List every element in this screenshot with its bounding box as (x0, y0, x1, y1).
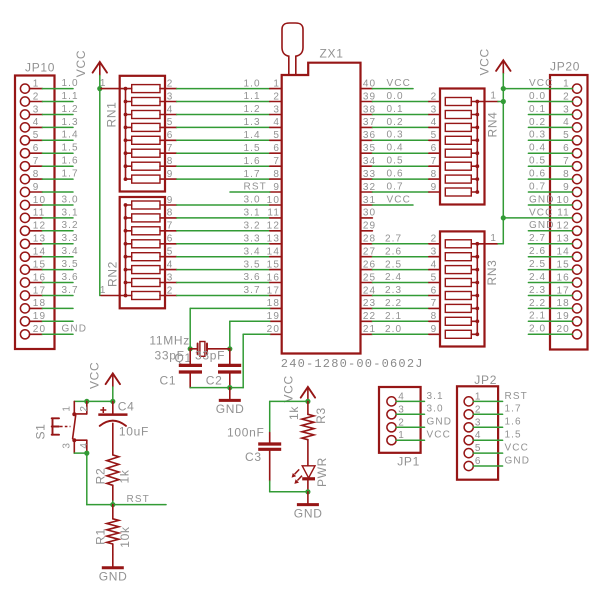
svg-text:VCC: VCC (505, 443, 529, 454)
svg-text:5: 5 (33, 130, 40, 141)
resistor network RN4 body (440, 89, 485, 205)
junction RN4 bus 3 (475, 126, 479, 130)
svg-text:GND: GND (505, 455, 531, 466)
svg-text:2.1: 2.1 (385, 311, 402, 322)
svg-text:7: 7 (563, 156, 570, 167)
ZX1 pin 37 (361, 117, 377, 128)
JP10 pin 18 (20, 298, 46, 313)
ZX1 pin 9 (270, 182, 282, 193)
junction RN1 bus 2 (124, 100, 128, 104)
svg-text:1.5: 1.5 (62, 143, 79, 154)
svg-text:5: 5 (431, 272, 438, 283)
capacitor C4 (98, 401, 127, 455)
svg-text:GND: GND (294, 506, 323, 520)
svg-text:R3: R3 (314, 407, 328, 424)
svg-text:3.7: 3.7 (244, 285, 261, 296)
wire JP1 pin 2 (396, 426, 424, 428)
JP20 pin 19 (556, 311, 581, 326)
wire JP20 pin 10 (528, 204, 572, 206)
JP20 pin 18 (556, 298, 581, 313)
svg-text:9: 9 (167, 195, 174, 206)
svg-text:4: 4 (33, 117, 40, 128)
ZX1 pin 4 (270, 117, 282, 128)
RN4 resistor 2 (445, 111, 477, 119)
svg-text:5: 5 (563, 130, 570, 141)
wire JP20 pin 5 (528, 139, 572, 141)
JP20 pin 11 (557, 208, 581, 223)
junction RN3 bus 5 (475, 294, 479, 298)
svg-text:3.5: 3.5 (244, 259, 261, 270)
RN2 resistor pin 5 (126, 247, 177, 261)
junction RN4 bus 7 (475, 177, 479, 181)
svg-text:19: 19 (556, 311, 569, 322)
svg-text:17: 17 (33, 285, 46, 296)
svg-text:3.1: 3.1 (62, 207, 79, 218)
svg-text:3: 3 (62, 443, 73, 449)
junction RST (110, 502, 115, 507)
wire JP10 pin 11 (42, 217, 73, 219)
resistor network RN3 body (440, 231, 485, 346)
svg-text:GND: GND (99, 570, 128, 584)
svg-text:1: 1 (273, 78, 280, 89)
svg-text:37: 37 (363, 117, 376, 128)
wire VCC to S1 (74, 400, 113, 402)
svg-text:16: 16 (267, 272, 280, 283)
svg-text:1.4: 1.4 (244, 130, 261, 141)
svg-text:GND: GND (216, 402, 245, 416)
wire JP20 pin 9 (528, 191, 572, 193)
RN4 pin 1 (477, 91, 503, 102)
svg-text:3.0: 3.0 (244, 195, 261, 206)
svg-text:RN1: RN1 (105, 101, 119, 127)
svg-text:2: 2 (79, 406, 90, 412)
svg-text:0.4: 0.4 (387, 143, 404, 154)
svg-text:VCC: VCC (529, 207, 553, 218)
RN2 resistor pin 8 (126, 208, 177, 222)
RN1 common bus (125, 89, 127, 180)
svg-text:40: 40 (363, 78, 376, 89)
svg-text:3.6: 3.6 (244, 272, 261, 283)
JP20 pin 9 (563, 182, 581, 197)
JP10 pin 8 (20, 169, 42, 184)
junction RN2 bus 6 (124, 242, 128, 246)
wire JP20 pin 8 (528, 178, 572, 180)
ZX1 pin 15 (267, 259, 282, 270)
junction RN2 bus 4 (124, 268, 128, 272)
svg-text:3.0: 3.0 (62, 194, 79, 205)
connector JP2 body (457, 386, 498, 479)
svg-text:18: 18 (556, 298, 569, 309)
RN3 resistor 4 (445, 279, 477, 287)
svg-text:1: 1 (62, 406, 73, 412)
junction RN1 bus 6 (124, 151, 128, 155)
svg-text:100nF: 100nF (227, 426, 265, 440)
junction RN2 bus 2 (124, 294, 128, 298)
ZX1 pin 2 (270, 91, 282, 102)
svg-text:GND: GND (427, 417, 453, 428)
JP1 pin 2 (387, 417, 405, 432)
ZX1 pin 12 (267, 221, 282, 232)
svg-text:20: 20 (556, 324, 569, 335)
JP2 pin 1 (464, 391, 481, 406)
JP20 pin 20 (556, 324, 581, 339)
svg-text:9: 9 (431, 182, 438, 193)
wire JP10 pin 3 (42, 114, 73, 116)
wire JP20 pin 12 (528, 230, 572, 232)
JP20 pin 7 (563, 156, 581, 171)
wire JP10 pin 16 (42, 282, 73, 284)
ZX1 pin 3 (270, 104, 282, 115)
JP10 pin 11 (20, 208, 45, 223)
junction S1/VCC wire (84, 399, 89, 404)
svg-text:4: 4 (431, 259, 438, 270)
svg-text:4: 4 (167, 104, 174, 115)
connector JP20 body (550, 75, 588, 350)
wire net 3.5 RN2 to ZX1 (177, 269, 270, 271)
svg-text:1.1: 1.1 (62, 91, 79, 102)
svg-text:1: 1 (100, 78, 107, 89)
JP10 pin 4 (20, 117, 42, 132)
LED PWR (292, 466, 315, 492)
ZX1 pin 5 (270, 130, 282, 141)
JP1 pin 4 (387, 391, 405, 406)
RN1 resistor 1 (126, 78, 177, 92)
wire JP10 pin 15 (42, 269, 73, 271)
svg-text:2.0: 2.0 (385, 324, 402, 335)
ZX1 pin 33 (361, 169, 377, 180)
svg-text:0.2: 0.2 (529, 117, 546, 128)
wire JP10 pin 5 (42, 139, 73, 141)
svg-text:32: 32 (363, 182, 376, 193)
svg-text:3: 3 (563, 104, 570, 115)
svg-text:240-1280-00-0602J: 240-1280-00-0602J (281, 357, 424, 371)
junction RN4 bus 5 (475, 151, 479, 155)
wire JP2 pin 4 (473, 439, 502, 441)
svg-text:1.1: 1.1 (244, 91, 261, 102)
wire net 3.0 RN2 to ZX1 (177, 204, 270, 206)
JP10 pin 9 (20, 182, 42, 197)
JP10 pin 7 (20, 156, 42, 171)
svg-text:1: 1 (563, 78, 570, 89)
junction RN1 bus 7 (124, 164, 128, 168)
svg-text:RN3: RN3 (485, 259, 499, 285)
svg-text:0.2: 0.2 (387, 117, 404, 128)
JP20 pin 13 (556, 234, 581, 249)
junction RN1 bus 1 (124, 87, 128, 91)
svg-text:2: 2 (167, 285, 174, 296)
JP10 pin 13 (20, 234, 46, 249)
svg-text:3: 3 (431, 247, 438, 258)
svg-text:6: 6 (167, 234, 174, 245)
wire net 2.5 ZX1 to RN3 (372, 269, 440, 271)
svg-text:11: 11 (33, 208, 46, 219)
svg-text:8: 8 (167, 156, 174, 167)
ZX1 pin 14 (267, 247, 282, 258)
wire net 2.4 ZX1 to RN3 (372, 282, 440, 284)
svg-text:3.6: 3.6 (62, 272, 79, 283)
wire JP20 pin 1 (503, 88, 572, 90)
wire C3 to LED cathode (270, 481, 308, 492)
svg-text:1.2: 1.2 (244, 104, 261, 115)
svg-text:VCC: VCC (88, 362, 102, 389)
svg-text:16: 16 (556, 272, 569, 283)
svg-text:19: 19 (267, 311, 280, 322)
ZX1 pin 30 (361, 208, 377, 219)
svg-text:17: 17 (556, 285, 569, 296)
svg-text:30: 30 (363, 208, 376, 219)
svg-text:C4: C4 (118, 400, 135, 414)
svg-text:GND: GND (62, 324, 88, 335)
junction RN3 bus 7 (475, 319, 479, 323)
svg-text:14: 14 (556, 247, 569, 258)
svg-text:13: 13 (267, 234, 280, 245)
svg-text:11: 11 (557, 208, 570, 219)
svg-text:1.0: 1.0 (62, 78, 79, 89)
wire JP20 pin 17 (528, 295, 572, 297)
svg-text:1.4: 1.4 (62, 130, 79, 141)
RN2 common bus (125, 205, 127, 296)
capacitor C2 (218, 349, 241, 388)
svg-text:9: 9 (563, 182, 570, 193)
JP10 pin 2 (20, 91, 42, 106)
svg-text:3: 3 (273, 104, 280, 115)
svg-text:1.3: 1.3 (62, 117, 79, 128)
JP20 pin 10 (556, 195, 581, 210)
JP20 pin 12 (556, 221, 581, 236)
ZX1 pin 22 (361, 311, 377, 322)
JP10 pin 20 (20, 324, 46, 339)
svg-text:29: 29 (363, 221, 376, 232)
wire JP2 pin 6 (473, 465, 502, 467)
wire net 3.7 RN2 to ZX1 (177, 295, 270, 297)
svg-text:8: 8 (431, 311, 438, 322)
svg-text:12: 12 (267, 221, 280, 232)
junction RN1 bus 5 (124, 138, 128, 142)
ZX1 pin 39 (361, 91, 377, 102)
svg-text:1.5: 1.5 (505, 430, 522, 441)
svg-text:14: 14 (33, 247, 46, 258)
junction LED/GND (305, 489, 310, 494)
wire net 3.3 RN2 to ZX1 (177, 243, 270, 245)
wire ZX1 pin18 to crystal (190, 308, 270, 348)
junction VCC/R3/C3 (305, 399, 310, 404)
svg-text:2.2: 2.2 (385, 298, 402, 309)
svg-text:7: 7 (167, 221, 174, 232)
resistor R3 (302, 401, 314, 465)
ZX1 pin 35 (361, 143, 377, 154)
ZX1 pin 24 (361, 285, 377, 296)
svg-text:RST: RST (127, 494, 150, 505)
JP10 pin 15 (20, 259, 46, 274)
wire JP10 pin 4 (42, 126, 73, 128)
svg-text:13: 13 (33, 234, 46, 245)
JP20 pin 6 (563, 143, 581, 158)
svg-text:2.2: 2.2 (529, 298, 546, 309)
wire net 2.6 ZX1 to RN3 (372, 256, 440, 258)
junction RN2 bus 8 (124, 216, 128, 220)
wire VCC to C3 (270, 401, 308, 432)
svg-text:RN2: RN2 (106, 261, 120, 287)
svg-text:7: 7 (167, 143, 174, 154)
wire JP20 pin 7 (528, 165, 572, 167)
junction RN3 bus 1 (475, 242, 479, 246)
wire net 1.1 RN1 to ZX1 (177, 101, 270, 103)
svg-text:3.2: 3.2 (62, 220, 79, 231)
svg-text:10: 10 (267, 195, 280, 206)
RN3 resistor 8 (445, 330, 477, 338)
svg-text:2.3: 2.3 (385, 285, 402, 296)
JP20 pin 16 (556, 272, 581, 287)
junction crystal left (188, 346, 193, 351)
svg-text:10: 10 (556, 195, 569, 206)
svg-text:VCC: VCC (477, 48, 491, 75)
svg-text:JP10: JP10 (25, 61, 55, 75)
svg-text:16: 16 (33, 272, 46, 283)
RN3 resistor 2 (445, 253, 477, 261)
wire JP1 pin 1 (396, 439, 424, 441)
ZX1 pin 32 (361, 182, 377, 193)
ZX1 pin 25 (361, 272, 377, 283)
svg-text:GND: GND (529, 194, 555, 205)
resistor R2 (107, 455, 119, 505)
capacitor C1 (179, 349, 202, 388)
JP1 pin 3 (387, 404, 405, 419)
svg-text:4: 4 (79, 443, 90, 449)
svg-text:R1: R1 (94, 528, 108, 545)
svg-text:17: 17 (267, 285, 280, 296)
svg-text:5: 5 (273, 130, 280, 141)
svg-text:8: 8 (563, 169, 570, 180)
svg-text:3.2: 3.2 (244, 221, 261, 232)
wire net 2.7 ZX1 to RN3 (372, 243, 440, 245)
svg-text:0.1: 0.1 (529, 104, 546, 115)
RN1 resistor 4 (126, 117, 177, 131)
svg-text:4: 4 (431, 117, 438, 128)
wire net VCC pin31 (372, 204, 413, 206)
svg-text:1.7: 1.7 (62, 169, 79, 180)
svg-text:1.2: 1.2 (62, 104, 79, 115)
wire net 0.5 ZX1 to RN4 (372, 165, 440, 167)
wire net 1.2 RN1 to ZX1 (177, 114, 270, 116)
svg-text:18: 18 (33, 298, 46, 309)
svg-text:0.7: 0.7 (387, 181, 404, 192)
svg-text:13: 13 (556, 234, 569, 245)
junction RN3 bus 8 (475, 332, 479, 336)
RN4 resistor 7 (445, 175, 477, 183)
JP1 pin 1 (387, 430, 405, 445)
svg-text:3.1: 3.1 (244, 208, 261, 219)
wire net RST (87, 504, 166, 506)
junction RN3 bus 6 (475, 307, 479, 311)
ZX1 pin 40 (361, 78, 377, 89)
junction RN4 bus 6 (475, 164, 479, 168)
connector JP1 body (379, 387, 421, 453)
ZX1 pin 16 (267, 272, 282, 283)
JP10 pin 14 (20, 247, 46, 262)
svg-text:8: 8 (167, 208, 174, 219)
wire ZX1 pin19 to crystal (230, 321, 270, 349)
svg-text:RST: RST (505, 391, 528, 402)
wire JP20 pin 4 (528, 126, 572, 128)
svg-text:6: 6 (167, 130, 174, 141)
RN2 resistor pin 7 (126, 221, 177, 235)
ZX1 pin 34 (361, 156, 377, 167)
svg-text:20: 20 (267, 324, 280, 335)
ZX1 pin 18 (267, 298, 282, 309)
wire S1 bottom (74, 452, 87, 454)
wire JP20 pin 3 (528, 114, 572, 116)
svg-text:0.6: 0.6 (387, 169, 404, 180)
RN3 resistor 1 (445, 240, 477, 248)
wire net RST at ZX1 (230, 191, 270, 193)
svg-text:2: 2 (431, 91, 438, 102)
ZX1 pin 17 (267, 285, 282, 296)
wire JP1 pin 3 (396, 413, 424, 415)
wire net 0.2 ZX1 to RN4 (372, 126, 440, 128)
svg-text:20: 20 (33, 324, 46, 335)
junction RN4 bus 8 (475, 190, 479, 194)
junction RN4 bus 4 (475, 138, 479, 142)
ZX1 pin 10 (267, 195, 282, 206)
svg-text:31: 31 (363, 195, 376, 206)
wire JP10 pin 20 (42, 333, 73, 335)
VCC symbol (477, 48, 510, 75)
junction S1 bottom (84, 451, 89, 456)
svg-text:26: 26 (363, 259, 376, 270)
RN4 resistor 5 (445, 149, 477, 157)
JP2 pin 5 (464, 443, 481, 458)
ZX1 pin 38 (361, 104, 377, 115)
wire JP10 pin 9 (42, 191, 73, 193)
JP2 pin 4 (464, 430, 481, 445)
wire net VCC pin40 (372, 88, 413, 90)
switch S1 (52, 401, 87, 453)
wire JP10 pin 6 (42, 152, 73, 154)
RN1 pin 1 (101, 88, 126, 90)
svg-text:1.0: 1.0 (244, 78, 261, 89)
JP10 pin 3 (20, 104, 42, 119)
svg-text:3: 3 (431, 104, 438, 115)
JP10 pin 17 (20, 285, 46, 300)
junction VCC/C4 (110, 399, 115, 404)
wire JP10 pin 19 (42, 320, 73, 322)
svg-text:4: 4 (563, 117, 570, 128)
wire JP10 pin 18 (42, 307, 73, 309)
junction RN3 bus 3 (475, 268, 479, 272)
junction RN3 bus 4 (475, 281, 479, 285)
svg-text:1.6: 1.6 (244, 156, 261, 167)
svg-text:0.7: 0.7 (529, 181, 546, 192)
svg-text:C3: C3 (245, 450, 262, 464)
svg-text:2: 2 (431, 234, 438, 245)
wire JP20 pin 20 (528, 333, 572, 335)
svg-text:3.3: 3.3 (244, 234, 261, 245)
svg-text:2.4: 2.4 (385, 272, 402, 283)
ZX1 pin 21 (361, 324, 377, 335)
svg-text:24: 24 (363, 285, 376, 296)
wire JP10 pin 12 (42, 230, 73, 232)
IC ZX1 body (282, 63, 361, 354)
svg-text:2.3: 2.3 (529, 285, 546, 296)
ZX1 pin 13 (267, 234, 282, 245)
svg-text:3: 3 (33, 104, 40, 115)
ground (99, 555, 128, 584)
JP10 pin 10 (20, 195, 46, 210)
svg-text:2: 2 (33, 91, 40, 102)
JP20 pin 17 (556, 285, 581, 300)
wire net 1.7 RN1 to ZX1 (177, 178, 270, 180)
svg-text:1.7: 1.7 (244, 169, 261, 180)
